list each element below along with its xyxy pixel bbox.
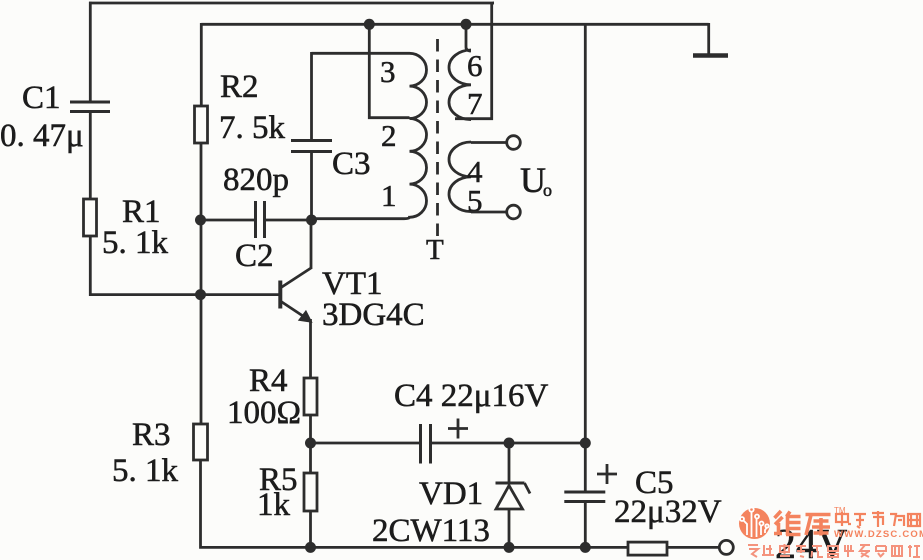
svg-text:C2: C2: [235, 238, 274, 274]
label Uo: [520, 160, 552, 200]
wire rail tap bracket to winding tap 2: [369, 23, 409, 118]
wire C2 row left: [200, 219, 255, 222]
terminal circle output top: [507, 136, 521, 150]
wire secondary top lead: [471, 141, 507, 144]
wire C1 to R1: [89, 112, 92, 200]
wire left drop from top rail to C1: [89, 2, 92, 102]
svg-text:5. 1k: 5. 1k: [112, 453, 179, 489]
wire base from left node to transistor: [200, 293, 279, 296]
node junction R5/bottom rail: [305, 542, 316, 553]
watermark logo circle: [739, 507, 770, 539]
wire R3 bottom to bottom rail corner: [201, 460, 629, 547]
ground: [693, 53, 728, 58]
wire winding7 bottom to top-rail right drop: [455, 3, 494, 119]
svg-text:C4 22μ16V: C4 22μ16V: [394, 378, 548, 414]
svg-text:100Ω: 100Ω: [227, 395, 301, 431]
svg-text:2CW113: 2CW113: [372, 513, 490, 549]
svg-text:o: o: [543, 180, 552, 200]
svg-text:1: 1: [381, 178, 397, 213]
terminal circle 24V input: [719, 540, 733, 554]
capacitor C3: [291, 141, 332, 152]
node junction rail/tap bracket: [364, 19, 375, 30]
wire secondary bottom lead: [471, 211, 507, 214]
svg-text:1k: 1k: [257, 487, 291, 523]
resistor R5: [304, 473, 317, 511]
wire C3 lower stub: [310, 152, 313, 221]
wire right branch from rail down to C5: [584, 23, 587, 492]
transformer T feedback winding (pins 6-7): [449, 50, 471, 120]
capacitor C1: [70, 102, 110, 112]
node junction C4/VD1: [504, 438, 515, 449]
node junction base line: [195, 289, 206, 300]
svg-text:3DG4C: 3DG4C: [322, 297, 425, 333]
svg-text:22μ32V: 22μ32V: [614, 494, 722, 530]
svg-text:WWW.DZSC.COM: WWW.DZSC.COM: [834, 529, 923, 540]
wire R5 to bottom rail: [309, 511, 312, 549]
svg-text:820p: 820p: [223, 162, 289, 198]
wire second rail: [201, 23, 708, 26]
transformer T secondary winding (pins 4-5): [449, 142, 471, 212]
watermark text 电子市场网: [836, 511, 920, 528]
wire collector up: [310, 220, 313, 269]
svg-text:3: 3: [380, 54, 396, 89]
fuse box on bottom rail: [628, 542, 667, 555]
zener diode VD1: [496, 443, 531, 549]
capacitor C2: [256, 201, 265, 238]
polarity plus C4: [448, 419, 468, 439]
wire fuse to input terminal: [667, 546, 719, 549]
wire winding 6 stub from rail: [466, 23, 471, 51]
watermark text 维库: [774, 511, 831, 536]
svg-text:6: 6: [467, 48, 483, 83]
terminal circle output bottom: [507, 205, 521, 219]
svg-text:T: T: [426, 234, 444, 266]
resistor R3: [194, 424, 208, 460]
wire top rail: [89, 2, 494, 5]
polarity plus C5: [597, 464, 617, 484]
wire R2 branch from rail: [200, 23, 203, 106]
svg-text:0. 47μ: 0. 47μ: [0, 118, 84, 154]
transformer T primary winding (pins 3-2-1): [404, 53, 427, 218]
capacitor C5: [564, 492, 605, 502]
ground drop from rail: [707, 23, 710, 55]
svg-text:2: 2: [381, 118, 397, 153]
wire C3 upper stub: [310, 52, 313, 140]
node junction rail/winding6: [461, 19, 472, 30]
svg-text:VD1: VD1: [419, 476, 483, 512]
resistor R4: [304, 378, 317, 415]
wire R2 bottom down left branch: [200, 143, 203, 424]
svg-text:C3: C3: [332, 146, 371, 182]
wire R4 to node: [309, 415, 312, 473]
node junction emitter/C4: [305, 438, 316, 449]
node junction C4/C5: [580, 438, 591, 449]
capacitor C4: [421, 424, 431, 464]
node junction R2/C2: [195, 215, 206, 226]
svg-text:R3: R3: [132, 417, 171, 453]
wire C4 row right: [431, 442, 586, 445]
wire emitter down to R4: [309, 319, 312, 378]
wire C4 row left: [311, 442, 421, 445]
resistor R1: [84, 199, 97, 236]
transformer core dashed line: [436, 39, 439, 238]
node junction C2/C3/collector: [306, 215, 317, 226]
node junction VD1/bottom rail: [504, 542, 515, 553]
node junction C5/bottom rail: [580, 542, 591, 553]
svg-text:R4: R4: [249, 363, 288, 399]
svg-text:7. 5k: 7. 5k: [219, 110, 286, 146]
wire R1 bottom to base node: [90, 236, 200, 295]
wire collector node to winding1 bottom: [312, 217, 405, 220]
wire winding3 top lead: [312, 52, 410, 55]
svg-text:R2: R2: [220, 69, 259, 105]
wire C2 row right to collector node: [265, 219, 313, 222]
resistor R2: [195, 106, 208, 143]
wire C5 to bottom rail: [584, 502, 587, 548]
watermark slogan 专业电子元器件交易网站: [748, 544, 920, 557]
transistor VT1: [280, 268, 311, 321]
svg-text:7: 7: [467, 86, 483, 121]
svg-text:C1: C1: [22, 80, 61, 116]
svg-text:5. 1k: 5. 1k: [102, 225, 169, 261]
